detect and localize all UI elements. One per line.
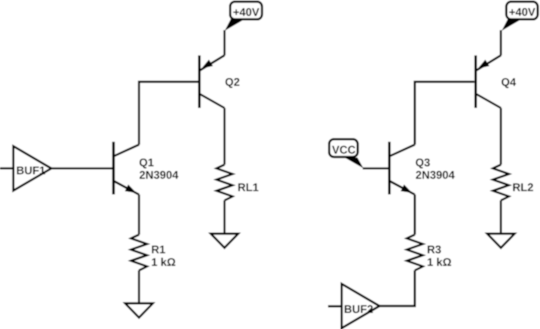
resistor R1 xyxy=(131,235,147,271)
wire Q1 emitter down xyxy=(138,195,140,235)
power flag +40V (left) xyxy=(225,2,262,31)
wire Q2 emitter to +40V flag xyxy=(223,30,225,55)
wire Q4 collector to RL2 xyxy=(500,108,502,165)
label R3 xyxy=(428,245,441,253)
wire BUF1 to Q1 base xyxy=(51,167,112,169)
label RL2 xyxy=(513,183,533,191)
wire R3 to BUF2 output xyxy=(380,270,415,306)
wire RL2 to ground xyxy=(500,200,502,233)
wire BUF1 input xyxy=(0,167,13,169)
label 1 kOhm R3 xyxy=(428,258,451,266)
wire VCC to Q3 base xyxy=(363,167,389,169)
wire Q3 collector to Q4 base xyxy=(415,82,475,145)
wire R1 to ground xyxy=(138,270,140,303)
label Q4 xyxy=(502,78,516,88)
resistor RL2 xyxy=(493,165,509,201)
ground under R1 xyxy=(125,303,153,317)
wire RL1 to ground xyxy=(223,200,225,233)
wire Q4 emitter to +40V flag xyxy=(500,30,502,55)
wire Q1 collector to Q2 base xyxy=(139,82,198,145)
resistor RL1 xyxy=(217,165,233,201)
wire Q2 collector to RL1 xyxy=(223,108,225,165)
wire Q3 emitter down xyxy=(414,195,416,235)
label Q2 xyxy=(225,78,239,88)
ground under RL2 xyxy=(487,234,515,248)
label RL1 xyxy=(238,183,258,191)
transistor Q2 xyxy=(199,55,224,108)
ground under RL1 xyxy=(211,234,239,248)
transistor Q4 xyxy=(476,55,501,108)
label 1 kOhm R1 xyxy=(152,258,175,266)
power flag VCC xyxy=(329,139,363,168)
label 2N3904 (Q3) xyxy=(416,171,455,179)
resistor R3 xyxy=(407,235,423,271)
wire BUF2 input xyxy=(328,305,342,307)
buffer BUF2 xyxy=(342,284,380,328)
buffer BUF1 xyxy=(13,146,51,190)
label Q3 xyxy=(416,158,430,168)
transistor Q1 xyxy=(114,142,140,195)
transistor Q3 xyxy=(389,142,415,195)
label 2N3904 xyxy=(140,171,179,179)
label R1 xyxy=(152,246,165,254)
label Q1 xyxy=(139,158,153,168)
power flag +40V (right) xyxy=(502,2,538,31)
